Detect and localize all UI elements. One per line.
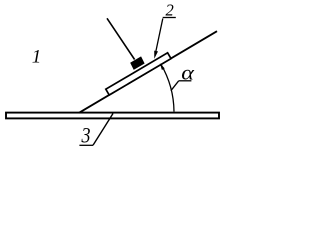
leader line of label 3 bbox=[93, 114, 113, 146]
arrowhead of angle arc bbox=[160, 63, 165, 70]
underline of label 3 bbox=[79, 144, 93, 146]
angle arc alpha bbox=[161, 64, 174, 111]
inclined line (wedge surface) bbox=[79, 31, 217, 113]
underline of label alpha bbox=[179, 80, 192, 82]
svg-text:1: 1 bbox=[32, 47, 42, 68]
leader line of label 2 bbox=[155, 19, 163, 55]
svg-text:3: 3 bbox=[81, 124, 91, 148]
strip specimen on incline bbox=[106, 53, 171, 95]
underline of label 2 bbox=[163, 17, 176, 19]
leader bend of label alpha to arc bbox=[171, 81, 179, 91]
base plate 3 (horizontal bar) bbox=[6, 113, 219, 119]
steep pointer line from upper left to block bbox=[107, 18, 135, 59]
black block (item 2) on strip bbox=[131, 57, 144, 69]
svg-text:2: 2 bbox=[166, 1, 174, 20]
arrowhead of leader 2 bbox=[154, 51, 158, 59]
